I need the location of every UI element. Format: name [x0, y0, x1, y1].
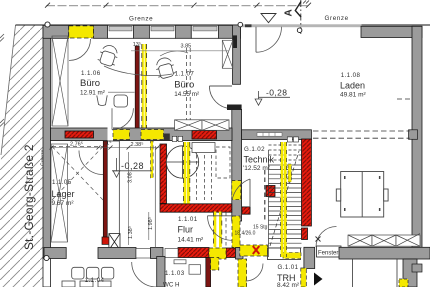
bottom wall segments [44, 248, 66, 259]
svg-text:1.1.05: 1.1.05 [52, 179, 72, 186]
svg-text:14.41 m²: 14.41 m² [178, 237, 204, 244]
survey circles [45, 22, 50, 27]
trh yellow horizontal [240, 245, 268, 256]
stair red stub [302, 228, 308, 240]
svg-text:Büro: Büro [174, 80, 194, 91]
technik red L wall vertical [160, 144, 167, 204]
yellow pair beside divider [142, 44, 147, 131]
svg-text:1.1.04: 1.1.04 [85, 277, 105, 284]
laden bottom wall [339, 247, 430, 259]
yellow demolition block top wall [69, 26, 94, 38]
shaft void [107, 141, 119, 237]
dim texts [70, 41, 268, 239]
property line [16, 24, 430, 26]
chairs buero07 [154, 56, 176, 80]
second yellow in technik right [288, 164, 291, 182]
svg-text:9.67 m²: 9.67 m² [52, 200, 75, 207]
top dimension line [46, 5, 309, 7]
right wall stub [409, 130, 418, 140]
top wall piers [43, 25, 241, 38]
trh yellow vertical [238, 259, 247, 287]
svg-text:G.1.01: G.1.01 [278, 264, 299, 271]
x mark near fenster door [316, 237, 321, 242]
room labels [52, 70, 367, 287]
dashed vlines buero07 [185, 48, 187, 120]
thin line under 13 dim [131, 50, 229, 52]
H1 door gap [108, 127, 114, 142]
stair red wall [302, 139, 312, 226]
section line A [300, 0, 302, 37]
bucket chairs bottom buero06 [97, 95, 128, 107]
svg-text:-0,28: -0,28 [121, 161, 144, 171]
lintel xboxes [175, 120, 229, 131]
svg-text:Technik: Technik [244, 155, 275, 165]
fenster box [317, 246, 342, 257]
svg-text:G.1.02: G.1.02 [244, 146, 265, 153]
svg-text:A: A [284, 9, 295, 16]
technik dashed rect [216, 147, 230, 178]
door arcs [69, 27, 282, 109]
wc red wall [206, 258, 211, 287]
svg-text:3.08: 3.08 [128, 172, 134, 183]
xbox buero07 top [222, 40, 233, 68]
stair yellow pair [281, 142, 287, 257]
left edge dimension ticks [0, 34, 4, 127]
H1 red section A [65, 131, 94, 138]
lager dashed demolition [52, 147, 103, 201]
wall H1 base [51, 128, 233, 141]
top-right exterior wall [361, 26, 422, 37]
street hatch strip [0, 25, 43, 287]
left exterior wall [43, 25, 51, 258]
dashed vline flur [225, 212, 227, 247]
svg-text:Lager: Lager [52, 189, 75, 199]
column in wall [233, 35, 237, 48]
svg-text:13⁵: 13⁵ [133, 41, 141, 48]
svg-text:'12.52 m²: '12.52 m² [243, 165, 271, 172]
svg-text:1.1.06: 1.1.06 [81, 70, 101, 77]
laden corridor wall lower [232, 109, 242, 221]
svg-text:14.55 m²: 14.55 m² [174, 91, 199, 98]
bottom red sections [178, 248, 209, 258]
svg-text:1.98⁵: 1.98⁵ [147, 217, 154, 230]
H1 red section B [192, 131, 217, 140]
label leader line [108, 91, 135, 93]
svg-text:18.4/26.0: 18.4/26.0 [235, 231, 256, 237]
lager shaft red wall [103, 141, 107, 237]
red block left of stair [266, 186, 275, 197]
svg-text:Grenze: Grenze [129, 16, 153, 23]
red door block [242, 207, 250, 214]
bottom right room lines [352, 259, 354, 287]
H1 yellow sections [113, 130, 130, 140]
H1 fixtures [164, 134, 170, 142]
corridor yellow stub [151, 141, 154, 178]
svg-text:St.-Georg-Straße 2: St.-Georg-Straße 2 [22, 144, 36, 250]
stair slope dashed line [270, 151, 299, 246]
svg-text:-0,28: -0,28 [266, 88, 287, 98]
buero07/laden wall upper [233, 25, 241, 84]
svg-text:1.1.07: 1.1.07 [175, 71, 195, 78]
svg-text:1.1.01: 1.1.01 [178, 216, 198, 223]
svg-text:Büro: Büro [80, 78, 100, 89]
technik red L wall horizontal [160, 204, 232, 212]
windows in top wall [108, 25, 219, 38]
svg-text:Grenze: Grenze [325, 15, 349, 22]
svg-text:Fenster: Fenster [318, 251, 338, 257]
buero0607 divider wall red [135, 46, 139, 131]
stair [269, 150, 302, 257]
dim line under H1 [51, 147, 160, 149]
right exterior wall [412, 26, 422, 253]
wc sinks [62, 267, 114, 287]
laden dashed boundary [313, 130, 410, 132]
technik top wall [242, 130, 312, 140]
svg-text:Flur: Flur [178, 225, 194, 235]
street boundary line [1, 25, 16, 155]
pier under laden wall [236, 248, 244, 260]
flur yellow pair [214, 212, 222, 248]
yellow continuation [232, 216, 240, 248]
svg-text:49.81 m²: 49.81 m² [340, 92, 366, 99]
svg-text:2.76⁵: 2.76⁵ [70, 141, 83, 148]
stair landing box [268, 248, 301, 260]
pier bottom right [403, 259, 417, 287]
pier right of landing [304, 247, 315, 268]
level marker lager [112, 158, 152, 171]
svg-text:1.1.08: 1.1.08 [341, 72, 361, 79]
svg-text:1.1.03: 1.1.03 [165, 270, 185, 277]
svg-text:Laden: Laden [340, 81, 365, 91]
laden bottom xbox row [348, 234, 420, 247]
shaft chimney xbox [109, 234, 120, 250]
red X on trh yellow [253, 246, 259, 254]
yellow next to wc red wall [211, 258, 219, 271]
level marker laden [259, 91, 291, 99]
chairs buero06 [97, 43, 120, 67]
svg-text:WC H: WC H [163, 282, 180, 287]
bottom right small yellow [399, 279, 408, 287]
dashed vline near stair [264, 170, 266, 222]
bottom yellow between reds [209, 248, 226, 259]
entrance solid triangle [314, 273, 323, 286]
svg-text:1.38⁵: 1.38⁵ [127, 226, 134, 239]
svg-text:12.91 m²: 12.91 m² [80, 90, 105, 97]
trh right yellow [301, 268, 307, 287]
svg-text:11⁵: 11⁵ [104, 140, 112, 147]
tall xbox lager [51, 144, 68, 242]
svg-text:3.85: 3.85 [181, 44, 192, 50]
tall xbox buero06 [52, 36, 68, 126]
wc h fixtures [174, 260, 186, 264]
svg-text:2.38⁵: 2.38⁵ [131, 141, 144, 148]
laden entrance triangle [261, 14, 276, 23]
boiler circle [166, 146, 198, 178]
technik fixture rect [192, 143, 215, 153]
svg-text:8.42 m²: 8.42 m² [277, 282, 300, 287]
vertical dim corridor [128, 152, 130, 245]
desk curve [104, 66, 172, 76]
wc divider wall [157, 257, 165, 287]
laden double table [336, 172, 388, 218]
technik yellow pair [184, 142, 190, 204]
